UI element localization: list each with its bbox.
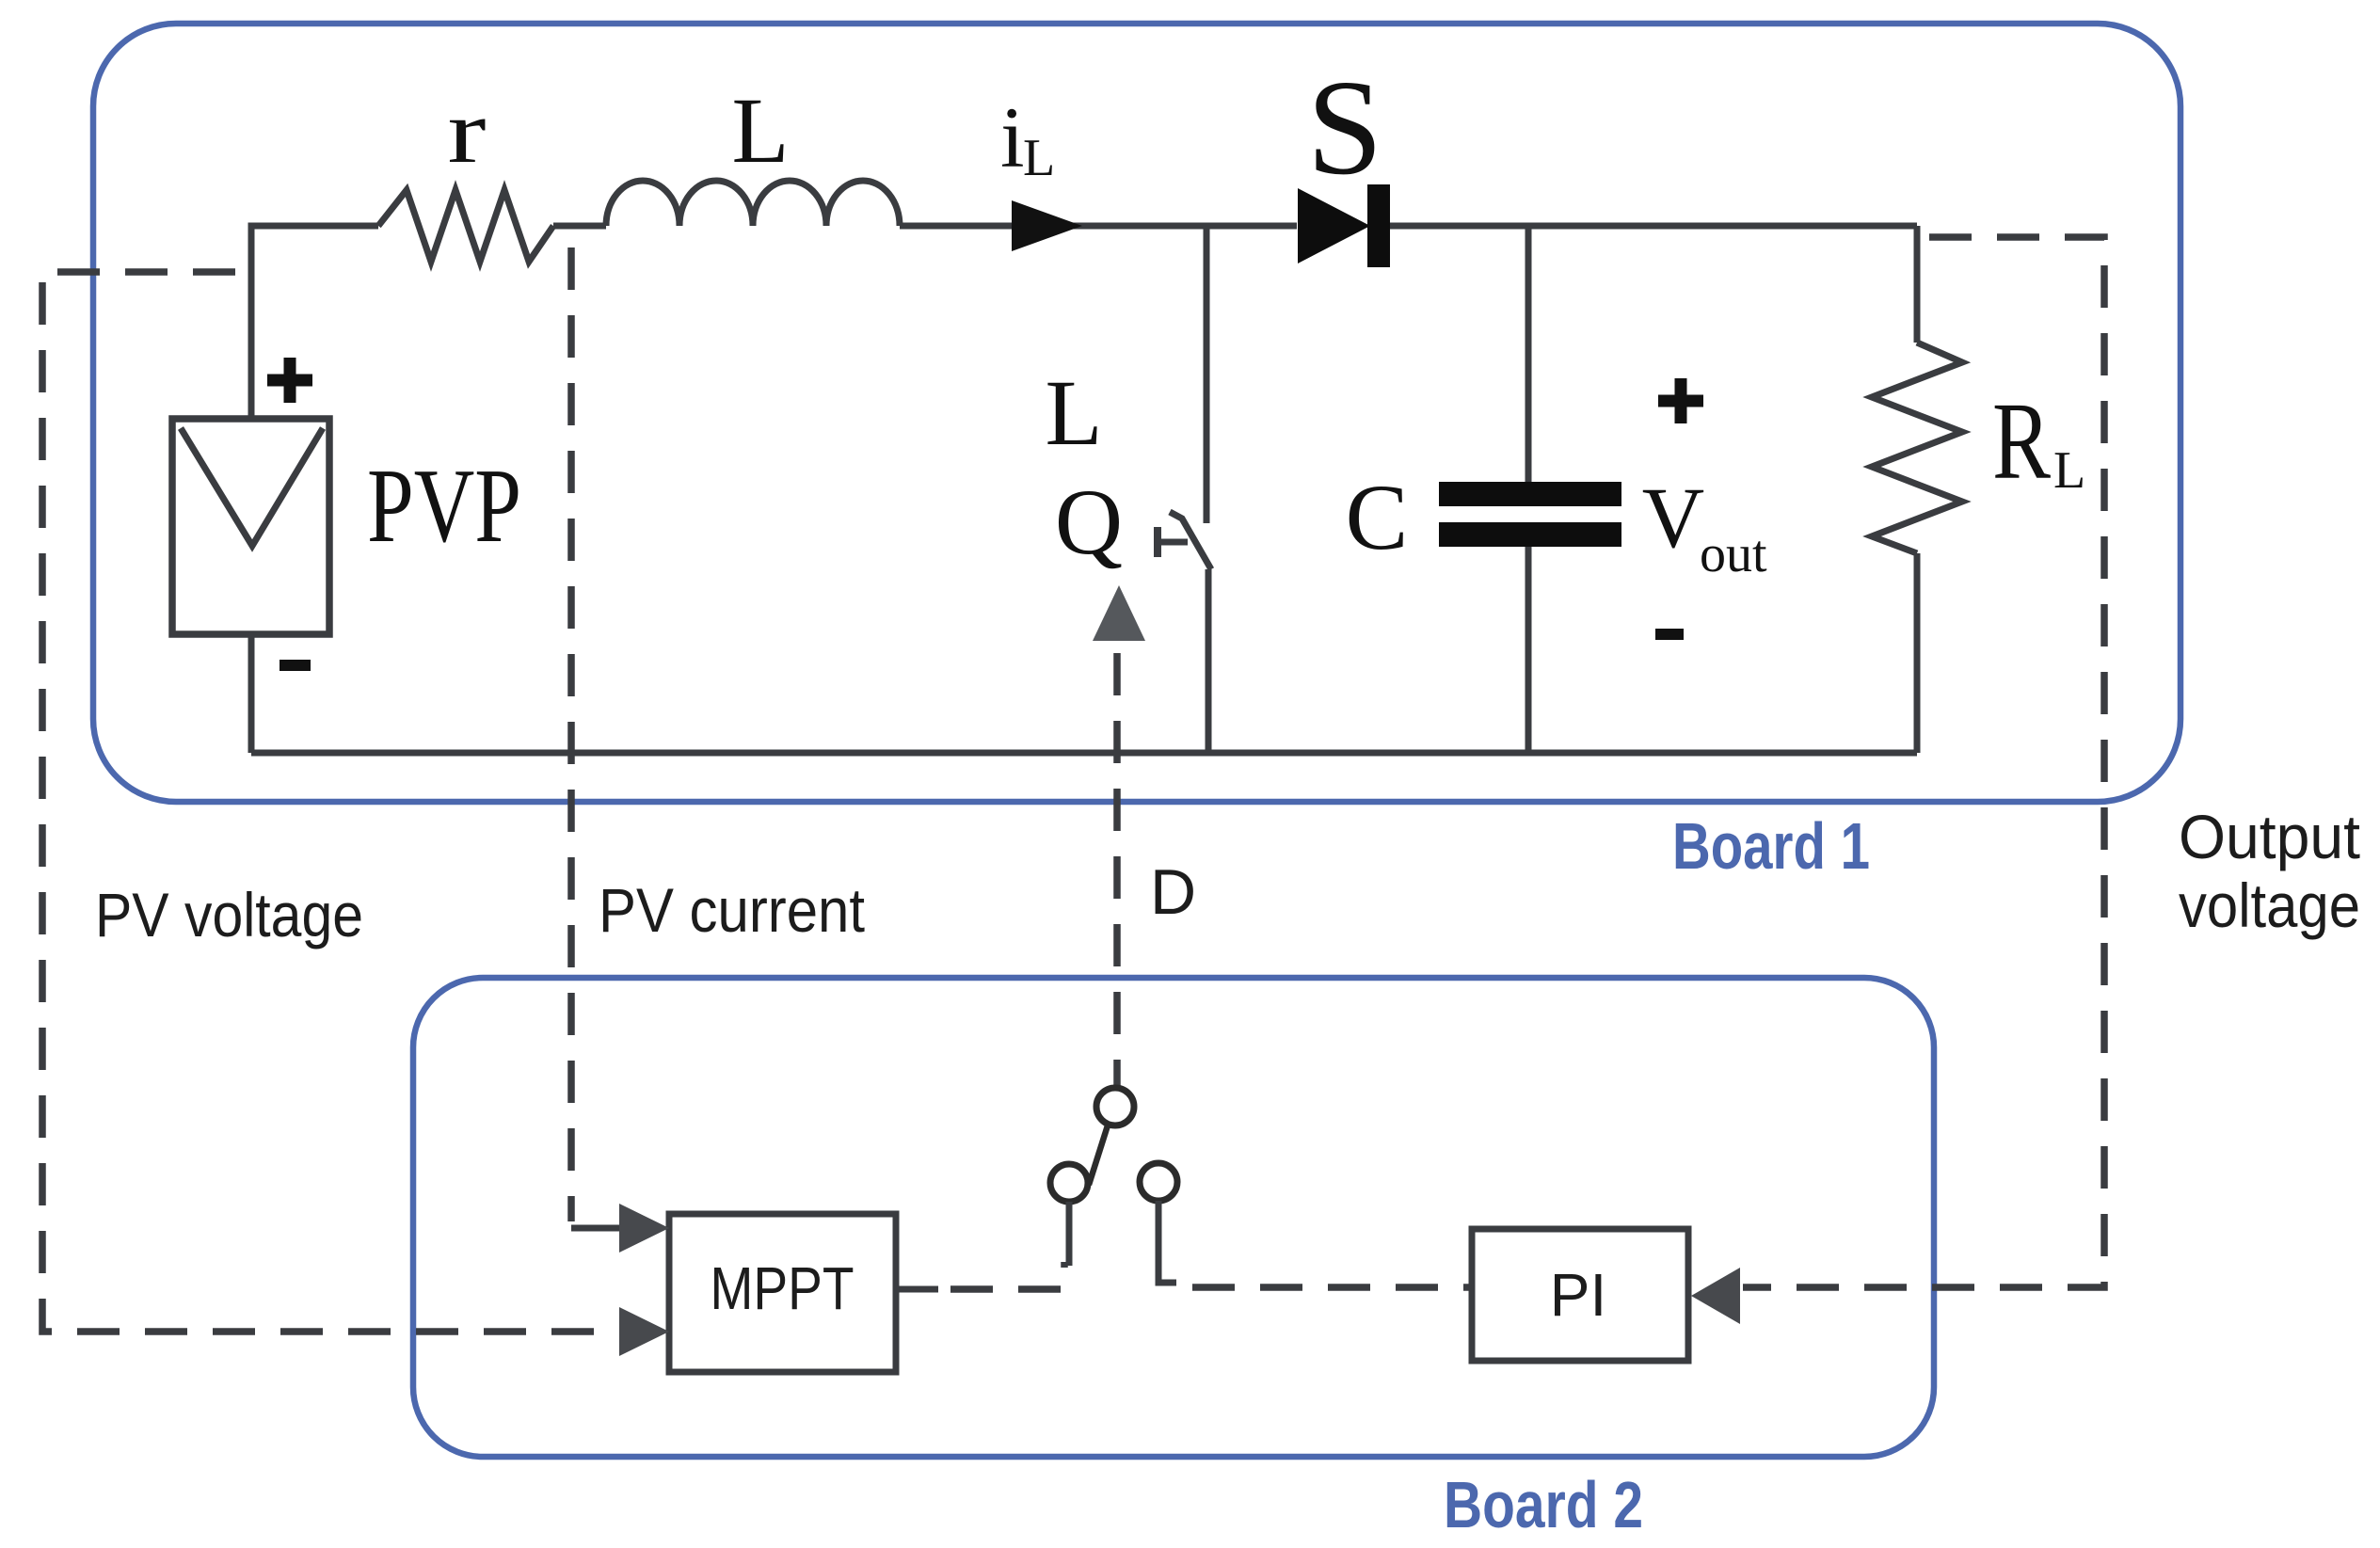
dashed duty cycle D line [1113, 653, 1121, 1086]
selector switch right stem [1158, 1201, 1176, 1283]
svg-text:L: L [1023, 129, 1055, 187]
wire from PVP plus terminal up to main node [251, 226, 378, 419]
resistor RL [1872, 226, 1962, 753]
svg-text:S: S [1307, 53, 1383, 203]
dashed output voltage line [1743, 237, 2104, 1287]
svg-text:D: D [1150, 856, 1196, 928]
dashed switch to PI line [1192, 1284, 1472, 1291]
svg-text:i: i [1000, 89, 1025, 185]
MPPT upper input arrow [619, 1204, 669, 1253]
PI input arrow [1691, 1268, 1740, 1324]
svg-text:C: C [1346, 465, 1409, 569]
transistor Q gate and blade [1158, 512, 1211, 569]
selector switch common contact [1096, 1088, 1134, 1125]
svg-text:L: L [2053, 441, 2085, 500]
minus terminal PVP [280, 660, 311, 671]
PV source PVP [172, 419, 329, 634]
board 2 enclosure [413, 978, 1934, 1457]
svg-text:PV voltage: PV voltage [95, 880, 363, 950]
bottom wire [251, 750, 1917, 757]
svg-text:MPPT: MPPT [711, 1254, 855, 1322]
svg-text:Q: Q [1055, 470, 1123, 574]
plus sign Vout [1658, 378, 1703, 423]
capacitor C top wire [1525, 226, 1532, 483]
svg-text:L: L [1045, 360, 1102, 465]
PVP bottom wire [248, 634, 255, 753]
selector switch right contact [1140, 1163, 1177, 1201]
current arrow iL [1012, 200, 1082, 251]
selector switch left stem [1066, 1202, 1073, 1266]
selector switch blade [1089, 1125, 1108, 1185]
svg-text:voltage: voltage [2179, 870, 2360, 940]
svg-text:Output: Output [2179, 802, 2360, 871]
transistor Q drain wire [1204, 226, 1210, 523]
svg-text:r: r [448, 81, 487, 182]
minus sign Vout [1655, 629, 1684, 640]
MPPT upper input stub [571, 1225, 626, 1232]
svg-text:L: L [731, 78, 789, 183]
svg-text:R: R [1992, 379, 2051, 503]
dashed MPPT to switch line [950, 1262, 1064, 1289]
plus terminal PVP [267, 358, 312, 403]
svg-text:PVP: PVP [367, 448, 521, 565]
svg-text:Board 1: Board 1 [1672, 809, 1870, 883]
wire between r and L [553, 223, 606, 230]
dashed PV current line [567, 247, 575, 1221]
svg-text:Board 2: Board 2 [1444, 1468, 1643, 1541]
transistor Q source wire [1206, 569, 1212, 753]
MPPT block [669, 1214, 896, 1372]
capacitor C plates [1439, 482, 1621, 547]
MPPT lower input arrow [619, 1307, 669, 1356]
wire from L to diode [900, 223, 1297, 230]
inductor L [606, 181, 900, 226]
dashed PV voltage line [42, 272, 614, 1332]
board 1 enclosure [93, 24, 2180, 802]
wire from diode to load corner [1390, 223, 1917, 230]
PI block [1472, 1229, 1688, 1361]
selector switch left contact [1050, 1164, 1088, 1202]
svg-text:PI: PI [1550, 1261, 1606, 1329]
resistor r [378, 190, 553, 262]
diode S [1298, 184, 1390, 267]
svg-text:PV current: PV current [599, 875, 865, 945]
svg-text:out: out [1700, 525, 1767, 583]
MPPT output stub [896, 1286, 938, 1293]
svg-text:V: V [1642, 470, 1704, 566]
duty cycle D arrow [1093, 585, 1145, 641]
capacitor C bottom wire [1525, 547, 1532, 753]
